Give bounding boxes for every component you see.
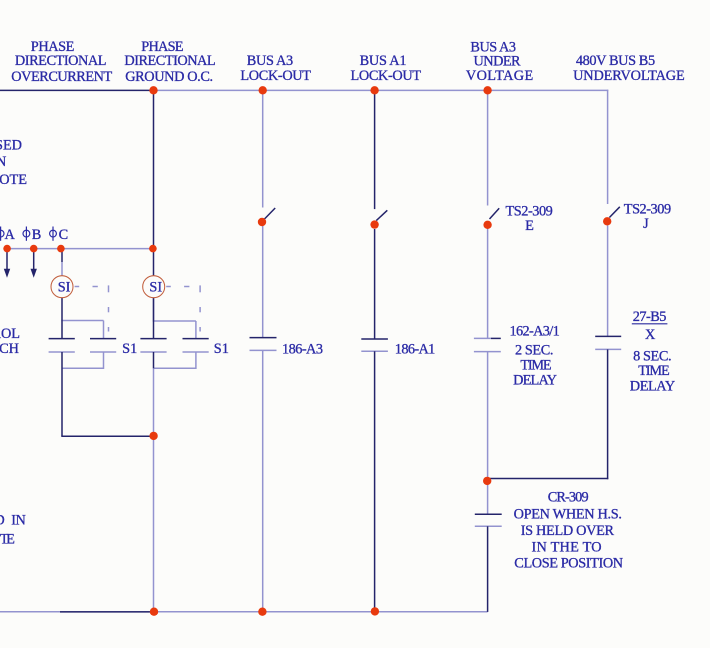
- svg-text:OPEN WHEN H.S.: OPEN WHEN H.S.: [514, 506, 622, 522]
- svg-text:DELAY: DELAY: [630, 378, 675, 394]
- svg-text:480V BUS B5: 480V BUS B5: [576, 53, 655, 69]
- svg-text:DIRECTIONAL: DIRECTIONAL: [124, 53, 215, 69]
- svg-text:SED: SED: [0, 137, 22, 153]
- svg-text:LOCK-OUT: LOCK-OUT: [240, 68, 311, 84]
- svg-text:BUS A3: BUS A3: [247, 53, 293, 69]
- svg-text:CR-309: CR-309: [548, 489, 589, 505]
- svg-text:GROUND O.C.: GROUND O.C.: [125, 69, 213, 85]
- svg-text:VOLTAGE: VOLTAGE: [466, 68, 534, 84]
- svg-text:B: B: [32, 227, 42, 243]
- svg-text:A: A: [5, 227, 16, 243]
- svg-text:N: N: [0, 154, 6, 170]
- svg-text:2 SEC.: 2 SEC.: [515, 343, 553, 359]
- svg-text:186-A3: 186-A3: [282, 341, 323, 357]
- svg-text:TS2-309: TS2-309: [506, 204, 553, 220]
- svg-text:186-A1: 186-A1: [395, 341, 436, 357]
- svg-text:D: D: [0, 513, 5, 529]
- svg-text:SI: SI: [58, 280, 71, 296]
- svg-text:LOCK-OUT: LOCK-OUT: [351, 68, 422, 84]
- svg-text:OTE: OTE: [0, 172, 27, 188]
- svg-text:IN THE TO: IN THE TO: [532, 540, 602, 556]
- svg-text:BUS A1: BUS A1: [360, 53, 407, 69]
- svg-text:TIME: TIME: [638, 363, 670, 379]
- svg-text:IN: IN: [11, 513, 25, 529]
- svg-text:IS HELD OVER: IS HELD OVER: [521, 523, 615, 539]
- svg-text:162-A3/1: 162-A3/1: [510, 323, 560, 339]
- svg-text:CLOSE POSITION: CLOSE POSITION: [514, 556, 623, 572]
- svg-text:J: J: [643, 216, 649, 232]
- svg-text:C: C: [59, 227, 69, 243]
- svg-text:27-B5: 27-B5: [633, 309, 667, 325]
- svg-text:CH: CH: [0, 341, 19, 357]
- svg-text:S1: S1: [122, 341, 137, 357]
- svg-text:TIME: TIME: [520, 357, 551, 373]
- svg-text:X: X: [645, 327, 656, 343]
- svg-text:DIRECTIONAL: DIRECTIONAL: [15, 53, 107, 69]
- svg-text:OVERCURRENT: OVERCURRENT: [11, 69, 112, 85]
- svg-text:S1: S1: [214, 341, 229, 357]
- svg-text:DELAY: DELAY: [513, 373, 557, 389]
- svg-text:UNDERVOLTAGE: UNDERVOLTAGE: [573, 68, 685, 84]
- svg-text:ROL: ROL: [0, 326, 20, 342]
- svg-text:E: E: [525, 218, 534, 234]
- svg-text:SI: SI: [149, 280, 162, 296]
- svg-text:TE: TE: [0, 532, 15, 548]
